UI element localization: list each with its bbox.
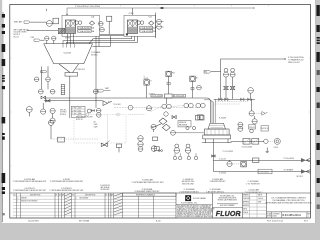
svg-text:D-10231 A/B: D-10231 A/B bbox=[24, 178, 35, 181]
svg-text:CH: CH bbox=[59, 194, 61, 196]
svg-text:FLUOR DANIEL: FLUOR DANIEL bbox=[193, 197, 206, 200]
instrument bubbles above outlet line bbox=[238, 122, 243, 127]
pipe bundle verticals to filter skid bbox=[204, 99, 215, 123]
pipe header lower bbox=[44, 100, 103, 102]
svg-text:FLUOR: FLUOR bbox=[216, 211, 241, 218]
approval fields grid bbox=[243, 193, 267, 218]
svg-text:2" KO FILTER SET: 2" KO FILTER SET bbox=[246, 184, 260, 186]
instrument bubbles drain pair upper bbox=[34, 77, 50, 82]
svg-text:C-10239 A/B: C-10239 A/B bbox=[248, 180, 259, 183]
svg-text:CHECKED: CHECKED bbox=[243, 198, 251, 200]
svg-text:2"-CD-10252: 2"-CD-10252 bbox=[223, 151, 233, 153]
svg-text:C-10241 A/B: C-10241 A/B bbox=[210, 188, 221, 191]
svg-text:F-10233: F-10233 bbox=[219, 118, 226, 120]
dashed instrument signal bbox=[128, 106, 191, 127]
svg-text:D-04-1051-210-A: D-04-1051-210-A bbox=[282, 214, 301, 217]
node inlet line label 1 bbox=[14, 20, 47, 23]
pennant arrow product line 2 bbox=[301, 169, 310, 173]
svg-text:2"-DA-10234-P11A: 2"-DA-10234-P11A bbox=[78, 30, 95, 33]
instrument bubble right of diamonds bbox=[171, 126, 204, 135]
level gauge ladder on tower leg bbox=[61, 85, 64, 95]
wire flare line vertical bbox=[109, 36, 111, 47]
instrument bubble pair bottom center 1 bbox=[174, 144, 180, 153]
svg-text:NOTE 12: NOTE 12 bbox=[297, 176, 304, 178]
svg-text:NOTE 10: NOTE 10 bbox=[76, 119, 83, 121]
inlet air filter hatched bbox=[58, 28, 65, 34]
interlock diamond 2 bbox=[162, 124, 170, 131]
instrument bubbles on tower top bbox=[45, 36, 56, 44]
small box near stack 1 bbox=[153, 137, 158, 141]
svg-text:0: 0 bbox=[17, 198, 18, 200]
wire product line east 2 bbox=[213, 171, 310, 173]
label box product line 2 bbox=[258, 169, 272, 174]
svg-text:N2: N2 bbox=[94, 122, 96, 124]
fluor address block bbox=[212, 195, 242, 208]
instrument riser between units bbox=[107, 16, 112, 34]
border zone ticks bbox=[10, 5, 311, 167]
svg-text:NOTE 4: NOTE 4 bbox=[91, 54, 98, 56]
revision entries text bbox=[17, 198, 89, 203]
wire product line east 1 bbox=[213, 159, 310, 161]
equipment callout B1 bbox=[13, 188, 46, 192]
stacked instrument bubbles bbox=[138, 136, 143, 152]
instrument bubble PI right of manifold bbox=[248, 88, 254, 98]
sequencer text lines dryer A bbox=[78, 26, 95, 32]
dryer package B enclosure bbox=[124, 15, 156, 36]
svg-text:PSV-12: PSV-12 bbox=[249, 127, 255, 129]
wires unit interconnect bbox=[100, 34, 125, 35]
flag label left of tower top bbox=[31, 37, 45, 41]
tiny marks beside bbox=[158, 150, 162, 152]
instrument bubbles right edge dryer A bbox=[99, 21, 105, 32]
note text small block bbox=[60, 109, 67, 116]
valve cluster at header origin bbox=[41, 96, 50, 102]
svg-text:PKG VENDOR SCOPE: PKG VENDOR SCOPE bbox=[76, 116, 93, 118]
wire drop to dryer B bbox=[129, 8, 135, 15]
instrument square AI above header bbox=[190, 76, 198, 98]
svg-text:211: 211 bbox=[79, 110, 82, 112]
svg-text:INST AIR: INST AIR bbox=[14, 20, 22, 23]
line label box 2 on header bbox=[173, 94, 185, 97]
wires drain risers bbox=[42, 66, 49, 89]
svg-text:455812: 455812 bbox=[272, 216, 277, 218]
filter skid package vessel bbox=[202, 123, 232, 143]
equipment callout A2 bbox=[50, 179, 83, 183]
wire regen gas line right top bbox=[221, 58, 286, 99]
svg-text:B-210: B-210 bbox=[156, 221, 161, 223]
svg-text:5: 5 bbox=[144, 76, 145, 78]
svg-text:PACKAGE: PACKAGE bbox=[179, 124, 188, 127]
svg-text:CWS: CWS bbox=[94, 124, 98, 126]
small box near stack 2 bbox=[154, 147, 159, 151]
equipment callout B3 bbox=[135, 188, 160, 193]
svg-text:C-10242 A/B: C-10242 A/B bbox=[248, 189, 259, 192]
equipment callout B5 bbox=[206, 188, 224, 193]
svg-text:2"-DR-101: 2"-DR-101 bbox=[76, 69, 85, 71]
instrument PIC at dryer A inlet bbox=[47, 21, 53, 27]
svg-text:3"-DG-10246: 3"-DG-10246 bbox=[242, 147, 253, 149]
revision hatch column 2 bbox=[114, 193, 122, 215]
svg-text:4"-RG: 4"-RG bbox=[129, 13, 135, 15]
drawing title text bbox=[265, 196, 312, 204]
inline filter box at dryer A inlet bbox=[53, 18, 59, 24]
revision hatch column 1 bbox=[65, 193, 72, 215]
control valve with actuator bbox=[268, 138, 280, 149]
equipment callout A4 bbox=[182, 179, 195, 186]
svg-text:10-6-92: 10-6-92 bbox=[258, 198, 263, 200]
dryer package A enclosure bbox=[62, 15, 100, 36]
revision table grid bbox=[13, 193, 176, 218]
reference drawings table bbox=[123, 193, 177, 218]
instrument bubbles pair lower left bbox=[50, 114, 55, 124]
svg-text:NONE: NONE bbox=[267, 216, 271, 218]
interlock diamond dryer A bbox=[89, 21, 94, 25]
svg-text:DESCRIPTION: DESCRIPTION bbox=[30, 194, 40, 196]
svg-text:INSTRUMENT AIR DRYING AND DIST: INSTRUMENT AIR DRYING AND DISTRIBUTION S… bbox=[265, 201, 312, 204]
wire valve manifold line right bbox=[214, 98, 255, 100]
svg-text:C-10240 A/B: C-10240 A/B bbox=[184, 188, 195, 191]
svg-text:2"-CD-55: 2"-CD-55 bbox=[219, 159, 226, 161]
instrument bubble right of funnel bbox=[93, 89, 98, 94]
tiny note text left of header mid bbox=[105, 88, 109, 90]
svg-text:2"-DG-10250: 2"-DG-10250 bbox=[284, 158, 295, 160]
wire top regeneration header bbox=[66, 7, 254, 16]
instrument bubble pair bottom center 2 bbox=[185, 144, 191, 153]
instrument bubbles beside dryer A bbox=[75, 21, 82, 25]
dryer vessel D-10231B bbox=[128, 20, 138, 34]
vessel wash tower V-10232 (inverted trapezoid) bbox=[44, 44, 93, 64]
svg-text:2: 2 bbox=[308, 216, 309, 218]
small box left of bundle bbox=[198, 115, 203, 120]
wire riser from dryer A area down bbox=[95, 36, 97, 108]
instrument bubbles below header left bbox=[41, 103, 46, 114]
pennant arrow product line 1 bbox=[301, 158, 310, 162]
interlock diamond dryer B bbox=[149, 21, 154, 25]
instrument bubbles beside dryer B bbox=[137, 21, 144, 25]
svg-text:C-10235-XX: C-10235-XX bbox=[24, 188, 35, 190]
instrument bubbles drain pair lower bbox=[38, 89, 55, 94]
instrument bubbles right edge dryer B bbox=[157, 19, 164, 29]
instrument square PDI above header bbox=[166, 71, 175, 94]
svg-text:TO V-102: TO V-102 bbox=[113, 104, 121, 106]
wire tower overhead to right bbox=[91, 47, 110, 57]
wire skid outlet east bbox=[231, 140, 264, 142]
svg-text:210: 210 bbox=[79, 108, 82, 110]
inline strainer boxes on outlet bbox=[243, 139, 259, 145]
svg-text:SKID MTD UNIT: SKID MTD UNIT bbox=[182, 183, 194, 185]
svg-text:2"-DR-56: 2"-DR-56 bbox=[219, 173, 226, 175]
svg-text:C-10236-XX: C-10236-XX bbox=[61, 188, 72, 190]
note text at right end of regen line bbox=[288, 56, 304, 64]
instrument bubbles stack x98 bbox=[96, 108, 101, 117]
inline meter box on product line bbox=[253, 158, 259, 162]
title strip top line bbox=[10, 192, 311, 194]
svg-text:F-10233 A/B: F-10233 A/B bbox=[142, 179, 153, 182]
dashed parallel manifold lines bbox=[215, 102, 248, 105]
svg-text:SH 1: SH 1 bbox=[304, 221, 308, 223]
equipment callout A5 bbox=[210, 178, 226, 183]
small bubble left of bundle bbox=[197, 85, 202, 90]
instrument bubble pair right top 1 bbox=[224, 68, 229, 77]
pipe header upper (dry gas) bbox=[44, 98, 210, 123]
svg-text:3333 MICHELSON DRIVE: 3333 MICHELSON DRIVE bbox=[219, 198, 237, 200]
wires dryer B bottom outlets routed left bbox=[63, 36, 138, 46]
svg-text:F-10234 A/B: F-10234 A/B bbox=[212, 178, 223, 181]
svg-text:C-10238-XX: C-10238-XX bbox=[183, 179, 194, 181]
fluor daniel logo bbox=[185, 195, 206, 201]
proprietary fine print block bbox=[176, 205, 215, 219]
sequencer text lines dryer B bbox=[140, 26, 157, 32]
pennant flag end of lower header bbox=[103, 101, 121, 106]
equipment callout A1 bbox=[13, 178, 47, 183]
svg-text:NOTE: NOTE bbox=[144, 78, 148, 80]
flag label above header start bbox=[97, 89, 110, 92]
label box pair right bbox=[249, 125, 256, 133]
instrument square TI-145 above header bbox=[144, 80, 152, 98]
flag label drains bbox=[41, 70, 47, 73]
title bottom cells bbox=[267, 212, 311, 218]
svg-text:2: 2 bbox=[76, 198, 77, 200]
svg-text:V-10232: V-10232 bbox=[63, 179, 70, 181]
svg-text:2"-DA-10235-P11A: 2"-DA-10235-P11A bbox=[140, 27, 157, 30]
sample valve slanted line bbox=[152, 112, 177, 128]
equipment callout B2 bbox=[50, 188, 84, 192]
small box on utility line bbox=[58, 137, 65, 142]
pump label box bbox=[219, 159, 247, 167]
control valves below bubbles bbox=[223, 77, 228, 99]
battery limit faint enclosure bbox=[74, 113, 126, 143]
svg-text:FV-21: FV-21 bbox=[274, 147, 279, 149]
paper right edge shadow bbox=[315, 0, 317, 223]
interlock diamond 1 bbox=[159, 118, 167, 125]
pennant flag on regen drop bbox=[204, 70, 221, 73]
valve and bubble mid bbox=[87, 109, 94, 113]
instrument bubble near diamonds bbox=[151, 124, 156, 132]
svg-text:04-1051 BWG: 04-1051 BWG bbox=[28, 221, 39, 223]
instrument bubble pair right top 2 bbox=[230, 68, 235, 77]
svg-text:NOTE 8: NOTE 8 bbox=[262, 128, 269, 130]
title block cell divider lines bbox=[176, 193, 267, 218]
svg-text:FLUOR DANIEL, INC.: FLUOR DANIEL, INC. bbox=[181, 201, 198, 204]
svg-text:DWG D-10-202: DWG D-10-202 bbox=[288, 62, 300, 64]
svg-text:BY: BY bbox=[105, 194, 107, 196]
wordmark period bbox=[239, 214, 240, 216]
svg-text:2"-RG-10231-6"-150#-P11A: 2"-RG-10231-6"-150#-P11A bbox=[75, 5, 100, 8]
right margin registration marks bbox=[316, 5, 319, 209]
signal line along header bbox=[114, 105, 196, 110]
svg-text:2"-DA-10233-P11A: 2"-DA-10233-P11A bbox=[78, 27, 95, 30]
svg-text:ISSUED: ISSUED bbox=[21, 198, 28, 200]
svg-text:V-10232: V-10232 bbox=[64, 52, 72, 54]
drain symbol below bbox=[266, 147, 269, 152]
svg-text:PLOT 10-24-92 D-04: PLOT 10-24-92 D-04 bbox=[267, 221, 283, 223]
svg-text:1: 1 bbox=[17, 201, 18, 203]
gate valves on manifold bbox=[219, 98, 252, 101]
instrument bubble in faint box bbox=[48, 120, 53, 139]
instrument circle standalone left bbox=[26, 107, 32, 117]
flow arrow node on top header bbox=[160, 7, 165, 9]
line label box 1 on header bbox=[151, 94, 162, 97]
equipment callout A3 bbox=[131, 179, 163, 184]
utility box with stem bbox=[116, 144, 121, 152]
node inlet line label 2 bbox=[14, 28, 59, 38]
wires dryer A bottom outlets bbox=[68, 34, 74, 45]
valve on drain riser bbox=[212, 155, 215, 157]
left margin registration marks bbox=[2, 14, 6, 215]
svg-text:VENT: VENT bbox=[105, 88, 109, 90]
svg-text:ISSUED FOR DESIGN: ISSUED FOR DESIGN bbox=[21, 201, 38, 203]
small text right of TI bbox=[144, 76, 148, 80]
paper left edge shadow bbox=[1, 12, 4, 222]
svg-text:BY: BY bbox=[55, 194, 57, 196]
tick top border zone mark bbox=[46, 9, 48, 11]
equipment callout B6 bbox=[245, 189, 263, 194]
svg-text:4"-DG-10241: 4"-DG-10241 bbox=[174, 96, 185, 98]
svg-text:2"-DR-10251: 2"-DR-10251 bbox=[259, 172, 269, 174]
svg-text:DESCRIPTION: DESCRIPTION bbox=[85, 194, 95, 196]
svg-text:HC-02: HC-02 bbox=[14, 36, 19, 38]
svg-text:X-10235-XX: X-10235-XX bbox=[100, 185, 111, 187]
svg-text:4"-DG-10240: 4"-DG-10240 bbox=[151, 96, 162, 98]
instrument bubbles right column bbox=[249, 99, 268, 116]
equipment callout A6 bbox=[246, 180, 260, 185]
inline silencer on header bbox=[165, 94, 173, 98]
trim table block bbox=[71, 106, 85, 117]
wire skid drain down bbox=[212, 139, 214, 172]
svg-text:NOTE 6: NOTE 6 bbox=[60, 114, 66, 116]
svg-text:RE-ISSUED: RE-ISSUED bbox=[80, 198, 90, 200]
svg-text:2"-DA-10236-P11A: 2"-DA-10236-P11A bbox=[140, 30, 157, 33]
legend text in faint box bbox=[76, 116, 98, 128]
small bubbles row bottom center bbox=[173, 153, 197, 160]
tower bottom funnel bbox=[59, 64, 79, 76]
dryer vessel D-10231A bbox=[66, 20, 76, 34]
svg-text:TO SEWER: TO SEWER bbox=[284, 169, 294, 171]
svg-text:P-10234 A/B: P-10234 A/B bbox=[142, 188, 153, 191]
svg-text:NOTE: NOTE bbox=[65, 38, 71, 40]
wire tower bottoms main drop bbox=[69, 76, 71, 118]
instrument bubble on outlet bbox=[264, 139, 268, 143]
utility valve with actuator bbox=[101, 141, 109, 147]
instrument bubbles below header mid bbox=[146, 106, 151, 111]
svg-text:DRUM UNIT: DRUM UNIT bbox=[101, 189, 110, 191]
equipment callout B4 bbox=[179, 188, 198, 193]
instrument bubble bottom center left bbox=[151, 146, 157, 152]
equipment callout M1 bbox=[100, 185, 111, 191]
dashed utility line bbox=[51, 138, 98, 140]
svg-text:REV 18 MAR: REV 18 MAR bbox=[79, 220, 90, 223]
